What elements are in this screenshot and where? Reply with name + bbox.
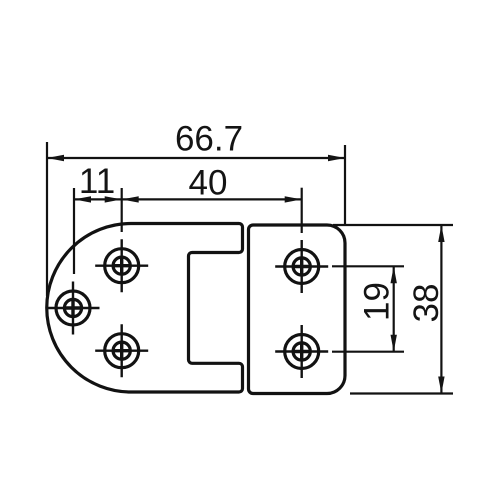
svg-text:66.7: 66.7 (175, 120, 243, 159)
svg-text:11: 11 (79, 162, 115, 201)
svg-text:19: 19 (358, 282, 397, 321)
svg-text:38: 38 (407, 284, 446, 323)
svg-text:40: 40 (189, 164, 228, 203)
